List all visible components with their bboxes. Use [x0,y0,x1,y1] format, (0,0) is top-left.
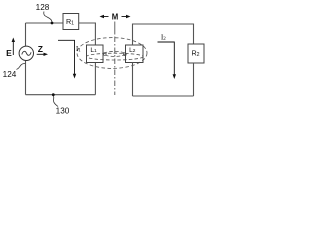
wire from L2 top up and right to R2 [133,24,194,45]
arrow I1 current in left loop [58,40,75,75]
wire left vertical from source bottom to bottom wire [25,61,27,95]
wire bottom of left loop [26,94,96,96]
axis line dash-dot below M [114,22,116,35]
flux terminal circle on L2 left edge [123,53,126,56]
node 128 dot on top wire [51,22,54,25]
coupling region big dashed ellipse [77,38,147,69]
wire from L1 bottom down to bottom-left wire [94,63,96,95]
resistor R2 [188,44,204,63]
svg-text:M: M [112,13,119,22]
flux line long dashed ellipse through L1 and L2 [87,53,144,60]
svg-text:E: E [6,48,12,58]
svg-text:128: 128 [36,3,50,12]
wire from R2 bottom down [193,63,195,96]
svg-text:L1: L1 [90,47,97,54]
wire left vertical from top wire down to source top [25,23,27,46]
leader line from 128 to node dot [44,12,52,23]
arrow M right [122,16,128,18]
inductor L2 [126,45,144,63]
wire from L2 bottom down to right bottom wire [132,63,134,97]
svg-text:130: 130 [56,107,70,116]
arrow M left [103,16,109,18]
arrow I2 current in right loop [158,42,175,76]
arrow E up [12,41,14,56]
svg-text:124: 124 [3,70,17,79]
svg-text:I1: I1 [76,44,81,54]
flux terminal circle on L1 right edge [103,53,106,56]
wire from R1 right side to corner and down into L1 [79,23,96,45]
svg-text:I2: I2 [161,33,166,43]
arrow Z right [37,53,45,55]
inductor L1 [87,45,104,63]
resistor R1 [63,14,79,30]
leader line from node dot to 130 [53,96,58,107]
node 130 dot on bottom wire [52,93,55,96]
svg-text:Z: Z [38,44,43,54]
wire bottom of right loop [133,95,194,97]
AC source E [19,46,33,60]
svg-text:L2: L2 [129,47,136,54]
wire top-left from node above source E to R1 [26,22,64,24]
leader line from 124 to source wire [17,63,26,69]
flux lens small dashed ellipse between coils [104,51,125,56]
